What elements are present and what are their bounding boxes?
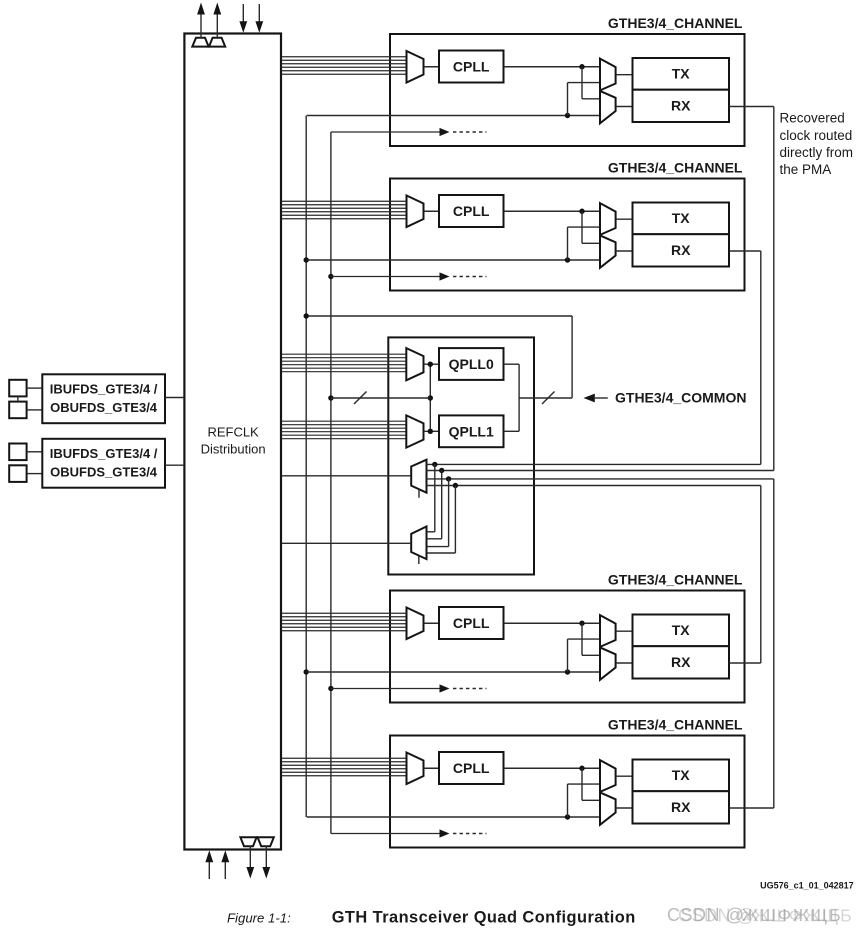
svg-text:Figure 1-1:: Figure 1-1:	[227, 911, 291, 926]
svg-text:TX: TX	[672, 210, 691, 226]
svg-text:Recovered: Recovered	[780, 111, 845, 126]
svg-text:Distribution: Distribution	[201, 442, 266, 457]
svg-text:CPLL: CPLL	[453, 615, 490, 631]
svg-text:QPLL0: QPLL0	[449, 356, 494, 372]
svg-text:RX: RX	[671, 654, 691, 670]
svg-text:RX: RX	[671, 97, 691, 113]
svg-text:OBUFDS_GTE3/4: OBUFDS_GTE3/4	[50, 400, 158, 415]
svg-text:GTHE3/4_CHANNEL: GTHE3/4_CHANNEL	[608, 717, 743, 733]
svg-text:GTHE3/4_CHANNEL: GTHE3/4_CHANNEL	[608, 15, 743, 31]
svg-text:TX: TX	[672, 767, 691, 783]
svg-text:CPLL: CPLL	[453, 59, 490, 75]
svg-text:RX: RX	[671, 799, 691, 815]
svg-text:GTHE3/4_COMMON: GTHE3/4_COMMON	[615, 390, 746, 406]
svg-text:directly from: directly from	[780, 145, 854, 160]
svg-text:GTHE3/4_CHANNEL: GTHE3/4_CHANNEL	[608, 572, 743, 588]
svg-text:the PMA: the PMA	[780, 162, 832, 177]
svg-text:CPLL: CPLL	[453, 203, 490, 219]
svg-text:OBUFDS_GTE3/4: OBUFDS_GTE3/4	[50, 465, 158, 480]
svg-text:GTH Transceiver Quad Configura: GTH Transceiver Quad Configuration	[332, 909, 636, 927]
svg-text:RX: RX	[671, 242, 691, 258]
svg-text:IBUFDS_GTE3/4 /: IBUFDS_GTE3/4 /	[50, 446, 158, 461]
svg-text:TX: TX	[672, 66, 691, 82]
svg-text:CPLL: CPLL	[453, 760, 490, 776]
svg-text:clock routed: clock routed	[780, 128, 853, 143]
svg-text:TX: TX	[672, 622, 691, 638]
svg-text:QPLL1: QPLL1	[449, 424, 494, 440]
svg-text:CSDN @: CSDN @	[678, 906, 755, 926]
svg-text:IBUFDS_GTE3/4 /: IBUFDS_GTE3/4 /	[50, 382, 158, 397]
svg-text:ЖШФЖЩБ: ЖШФЖЩБ	[753, 906, 853, 926]
svg-text:REFCLK: REFCLK	[207, 425, 259, 440]
svg-text:UG576_c1_01_042817: UG576_c1_01_042817	[760, 880, 854, 890]
svg-text:GTHE3/4_CHANNEL: GTHE3/4_CHANNEL	[608, 160, 743, 176]
